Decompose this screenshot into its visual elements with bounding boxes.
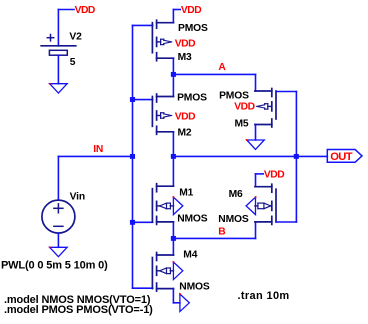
svg-text:VDD: VDD: [175, 111, 195, 122]
wire gate stub M3: [133, 24, 153, 26]
nmos M1: [152, 184, 173, 225]
power flag VDD (M3): [173, 5, 201, 23]
svg-text:OUT: OUT: [330, 151, 353, 163]
wire V2 bottom: [57, 55, 59, 83]
svg-text:M2: M2: [178, 127, 192, 138]
wire node B to M6: [173, 222, 255, 239]
port OUT: [327, 150, 362, 164]
power flag VDD (M6): [256, 170, 285, 187]
svg-text:VDD: VDD: [181, 5, 201, 16]
svg-text:A: A: [218, 62, 226, 73]
svg-text:M3: M3: [178, 52, 192, 63]
ground (M6 bulk): [246, 196, 256, 214]
junction OUT rail / drains: [171, 154, 176, 159]
svg-text:B: B: [218, 227, 225, 238]
svg-text:M4: M4: [183, 250, 197, 261]
junction IN: [130, 154, 135, 159]
wire M4 source to ground: [173, 289, 180, 303]
svg-text:NMOS: NMOS: [177, 214, 208, 225]
pmos M5 (mirrored): [255, 89, 276, 128]
power flag VDD (V2): [58, 5, 95, 16]
svg-text:VDD: VDD: [234, 101, 254, 112]
svg-text:VDD: VDD: [175, 38, 195, 49]
pmos M2: [152, 94, 173, 134]
svg-text:PWL(0 0 5m 5 10m 0): PWL(0 0 5m 5 10m 0): [1, 260, 108, 272]
svg-text:IN: IN: [93, 144, 103, 155]
svg-text:V2: V2: [69, 32, 82, 43]
wire OUT rail: [173, 155, 327, 157]
svg-text:PMOS: PMOS: [177, 93, 207, 104]
svg-text:5: 5: [70, 57, 76, 68]
svg-text:M1: M1: [179, 187, 193, 198]
voltage source Vin (circle): [42, 200, 75, 233]
voltage source V2 (battery): [41, 35, 76, 56]
wire node A to M5: [173, 74, 255, 91]
ground (M4 bulk): [173, 261, 183, 279]
svg-text:M6: M6: [229, 189, 243, 200]
svg-text:M5: M5: [235, 119, 249, 130]
ground (M4 source): [179, 293, 189, 311]
wire gate stub M2: [133, 99, 153, 101]
wire M1 source - M4 drain: [172, 222, 174, 255]
junction node A: [171, 72, 176, 77]
wire gate stub M1: [133, 221, 153, 223]
ground (V2): [49, 83, 67, 93]
svg-text:.tran 10m: .tran 10m: [238, 290, 290, 302]
wire M5 gate to OUT: [276, 92, 296, 157]
svg-text:VDD: VDD: [264, 170, 284, 181]
wire V2 top: [57, 10, 59, 46]
wire M5 source to ground: [255, 125, 257, 141]
wire M6 gate to OUT: [276, 156, 296, 222]
svg-text:.model PMOS PMOS(VTO=-1): .model PMOS PMOS(VTO=-1): [4, 304, 153, 316]
wire IN (Vin to gate bus): [58, 156, 132, 200]
nmos M6 (mirrored): [255, 184, 276, 224]
pmos M3: [152, 20, 173, 61]
svg-text:PMOS: PMOS: [178, 23, 208, 34]
svg-text:NMOS: NMOS: [179, 282, 210, 293]
svg-text:PMOS: PMOS: [219, 91, 249, 102]
svg-text:VDD: VDD: [75, 5, 95, 16]
wire Vin bottom: [57, 233, 59, 247]
wire M1 drain to OUT rail: [172, 156, 174, 186]
wire M3 drain - M2 source: [172, 58, 174, 96]
wire gate bus IN: [132, 25, 134, 288]
junction OUT / right bus: [294, 154, 299, 159]
wire M2 drain to OUT rail: [172, 132, 174, 157]
svg-text:Vin: Vin: [70, 192, 85, 203]
junction M1 gate: [130, 220, 135, 225]
ground (M5 source): [246, 139, 264, 149]
nmos M4: [152, 253, 173, 292]
ground (M1 bulk): [173, 196, 183, 214]
svg-text:NMOS: NMOS: [218, 214, 249, 225]
wire gate stub M4: [133, 287, 153, 289]
ground (Vin): [49, 247, 67, 257]
junction node B: [171, 236, 176, 241]
junction M2 gate: [130, 97, 135, 102]
